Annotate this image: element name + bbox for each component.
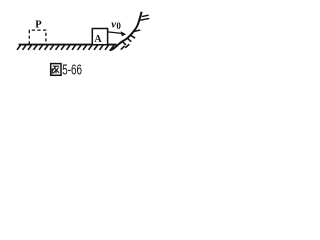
svg-text:P: P (35, 19, 42, 30)
svg-text:A: A (94, 34, 102, 45)
svg-text:0: 0 (116, 21, 121, 31)
svg-text:5-66: 5-66 (62, 62, 82, 78)
